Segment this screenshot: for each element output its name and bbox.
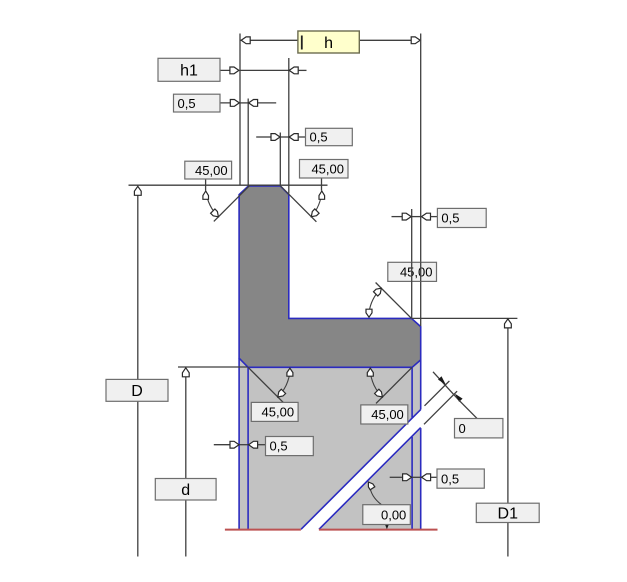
label box 45,00 mid-right bbox=[361, 405, 408, 424]
svg-text:0,5: 0,5 bbox=[178, 96, 196, 111]
angular dimension 45 top-left: arc and arrows bbox=[203, 191, 219, 217]
part upper dark-gray L region (blue outline) bbox=[239, 186, 421, 367]
part lower light-gray region bbox=[239, 358, 421, 529]
dimension 0,5 top-right line and arrows bbox=[256, 134, 305, 141]
dimension 0,5 top-left line and arrows bbox=[221, 100, 277, 107]
label box D1 bbox=[476, 503, 539, 522]
label box D bbox=[106, 379, 168, 401]
dimension h1 line and arrows bbox=[221, 67, 307, 74]
label box h1 bbox=[158, 58, 220, 81]
svg-text:45,00: 45,00 bbox=[371, 407, 404, 422]
extension line left edge extended up (x=240) bbox=[239, 34, 241, 186]
dimension h line with outward arrows bbox=[241, 37, 421, 44]
label box 45,00 right bbox=[388, 262, 437, 281]
dimension 0,5 right line and arrows bbox=[392, 213, 438, 220]
label box 0,00 bbox=[363, 505, 411, 525]
label box 0,5 right bbox=[437, 208, 486, 227]
dimension 0: perpendicular dimension line with arrows and leader bbox=[433, 372, 477, 419]
svg-text:h: h bbox=[324, 35, 333, 52]
extension line x=288.8 (leg right edge extended up) bbox=[288, 58, 290, 194]
angular dimension 45 right: chamfer extension line bbox=[376, 283, 412, 319]
angular dimension 45 top-right: arc and arrows bbox=[311, 191, 324, 217]
label box 45,00 top-right bbox=[300, 160, 349, 179]
red base construction line bbox=[225, 529, 438, 531]
svg-text:h1: h1 bbox=[180, 63, 198, 80]
label box h (active edit, yellow) with text cursor bbox=[298, 31, 359, 53]
dimension D1 vertical line and arrow bbox=[505, 319, 512, 557]
label box 0,5 top-left bbox=[174, 94, 221, 112]
dimension 0,5 lower-right line and arrows bbox=[390, 474, 437, 481]
dimension 0,00: curved leader with open arrow to slot edge bbox=[368, 482, 381, 505]
svg-text:45,00: 45,00 bbox=[400, 265, 433, 280]
inner vertical sketch line x=412 (right 0.5 wall) bbox=[411, 367, 413, 529]
part outer left edge (blue) bbox=[238, 358, 240, 529]
horizontal reference line y=185.7 bbox=[129, 184, 328, 186]
extension lines over 45,00 right box bbox=[412, 262, 421, 318]
dimension d vertical line and arrow bbox=[182, 368, 189, 557]
angular dimension 45 top-right: leader from label bbox=[321, 178, 323, 190]
label box 0,5 top-right bbox=[306, 128, 353, 145]
label box 45,00 top-left bbox=[185, 161, 232, 179]
horizontal reference line y=318.4 (to D1) bbox=[412, 317, 518, 319]
label box 0,5 lower-left bbox=[266, 437, 314, 456]
angular dimension 45 mid-left: arc and arrows bbox=[278, 368, 293, 397]
angular dimension 45 top-left: leader from label bbox=[205, 179, 207, 190]
svg-text:0,5: 0,5 bbox=[270, 439, 288, 454]
label box d bbox=[155, 479, 216, 501]
svg-text:45,00: 45,00 bbox=[195, 163, 228, 178]
svg-text:45,00: 45,00 bbox=[311, 161, 344, 176]
dimension D vertical line and arrow bbox=[134, 186, 141, 556]
svg-text:D1: D1 bbox=[498, 506, 519, 523]
svg-text:0,5: 0,5 bbox=[441, 471, 459, 486]
angular dimension 45 mid-right: chamfer extension line bbox=[376, 367, 412, 403]
angular dimension 45 top-left: chamfer extension line bbox=[214, 186, 250, 222]
dimension 0,5 lower-left line and arrows bbox=[214, 441, 265, 448]
angular dimension 45 mid-right: arc and arrows bbox=[367, 368, 382, 397]
label box 0,5 lower-right bbox=[437, 469, 484, 488]
label box 0 bbox=[455, 419, 503, 438]
inner vertical sketch line x=248 (left 0.5 wall) bbox=[247, 367, 249, 529]
extension line x=411.7 (step chamfer) bbox=[411, 209, 413, 262]
svg-text:0,5: 0,5 bbox=[441, 211, 459, 226]
svg-text:0: 0 bbox=[459, 421, 466, 436]
svg-text:45,00: 45,00 bbox=[262, 405, 295, 420]
svg-text:D: D bbox=[131, 383, 143, 400]
extension line right edge extended up (x=420.7) bbox=[420, 34, 422, 327]
angular dimension 45 top-right: chamfer extension line bbox=[280, 186, 316, 222]
svg-text:0,5: 0,5 bbox=[310, 130, 328, 145]
extension line x=248 (top-left chamfer) bbox=[247, 99, 249, 186]
horizontal reference line y=367 (to d) bbox=[178, 366, 248, 368]
angular dimension 45 mid-left: chamfer extension line bbox=[248, 367, 284, 403]
svg-text:d: d bbox=[181, 482, 190, 499]
diagonal slot (white band) through lower region bbox=[301, 409, 422, 530]
dimension 0,00: tick arrow to red base line bbox=[385, 524, 389, 529]
extension line x=280 (top-right chamfer start) bbox=[279, 133, 281, 186]
angular dimension 45 right: arc and arrows bbox=[366, 288, 381, 317]
svg-text:0,00: 0,00 bbox=[381, 507, 406, 522]
part outer right edge (blue, interrupted by slot) bbox=[420, 360, 422, 529]
dimension 0: slot edge extension lines bbox=[424, 381, 457, 424]
label box 45,00 mid-left bbox=[251, 402, 298, 421]
